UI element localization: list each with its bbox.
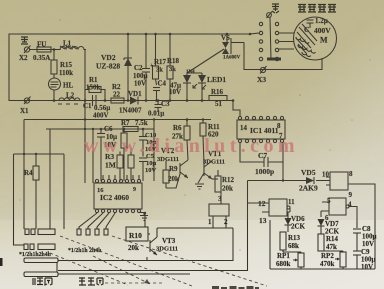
timer block box: [208, 204, 229, 228]
fuse FU: [30, 41, 58, 53]
gate IC1d (8,9,10): [326, 170, 353, 199]
diode VD3: [183, 70, 195, 101]
resistor R9: [163, 161, 180, 188]
wire: L1 to C1 node: [84, 50, 85, 101]
wire: C5 column down to R10: [143, 183, 145, 227]
resistor R17: [153, 34, 167, 85]
ground (VT1): [195, 173, 204, 189]
capacitor C5: [139, 153, 157, 181]
terminal X2: [19, 46, 50, 63]
motor M: [294, 17, 337, 60]
switch bank2 row: [77, 229, 108, 235]
IC IC1 4011: [237, 116, 285, 142]
switch contacts left column: [259, 22, 262, 60]
diode VD6 2CK: [285, 215, 306, 232]
wire: gate A out down: [288, 208, 290, 216]
capacitor C3: [148, 100, 170, 118]
resistor R4: [24, 166, 39, 180]
wire: rail y=129: [46, 128, 154, 130]
wire: to VD5 line: [248, 162, 331, 181]
wire: bottom bus: [270, 220, 375, 269]
label 阵风: [33, 278, 52, 285]
wire: left vertical x=13.5: [14, 154, 25, 245]
wire: horizontal y=154: [14, 153, 65, 155]
ground (IC2): [139, 213, 148, 221]
switch contacts right column: [275, 22, 278, 60]
wire: bar2 line right: [58, 273, 190, 275]
capacitor C6: [97, 125, 117, 181]
wire: top rail: [9, 34, 250, 101]
wire: gate output to right rail: [348, 184, 375, 269]
zener VD2 UZ-828: [96, 34, 132, 101]
resistor R6: [172, 120, 190, 161]
capacitor C2: [133, 34, 154, 101]
capacitor C7: [240, 143, 283, 177]
transistor VT1: [203, 150, 225, 179]
resistor R18: [167, 34, 180, 101]
wire: y=228 bus: [157, 227, 233, 229]
caption tops (cropped): [212, 286, 259, 289]
push bar 2: [24, 272, 58, 277]
wire: vertical x=154: [153, 120, 155, 182]
wire: box frame lines: [58, 181, 248, 271]
wire: rail y=119.5: [24, 119, 211, 121]
capacitor C10: [139, 129, 157, 157]
capacitor C4: [153, 80, 181, 101]
pot RP2 470k: [320, 251, 346, 269]
resistor R15: [51, 50, 73, 78]
inductor L1: [58, 40, 86, 50]
IC IC2 4060: [94, 179, 142, 212]
resistor R2: [111, 83, 124, 103]
triac VS: [221, 34, 244, 61]
terminal top of switch: [267, 12, 273, 19]
resistor R12: [212, 170, 235, 193]
diode VD5 2AK9: [299, 168, 330, 193]
inductor L2: [58, 92, 80, 105]
wires: IC2 to switch bank2: [79, 213, 115, 229]
LED LED1: [193, 75, 226, 101]
diode VD7 2CK: [318, 219, 340, 236]
transistor VT2: [157, 147, 188, 178]
timer block pins: [218, 192, 222, 204]
wires to motor: [279, 33, 294, 49]
terminal X3 bottom: [257, 66, 267, 84]
resistor R11: [200, 120, 220, 165]
switch X3 common line: [270, 18, 271, 61]
terminal X1: [20, 97, 31, 116]
resistor R10: [126, 227, 148, 252]
capacitor C9: [353, 248, 376, 271]
push bar 1: [24, 258, 58, 272]
pot RP1 680k: [276, 252, 304, 269]
resistor R13: [280, 232, 301, 252]
resistor R1 (parallel with C1): [85, 76, 105, 101]
wire: VT3 collector up: [156, 228, 158, 237]
capacitor C8: [353, 225, 377, 251]
transistor VT3: [148, 234, 178, 255]
wire: gate B out to C8 col: [349, 207, 357, 229]
resistor R16: [209, 88, 227, 108]
wire: vertical x=50: [49, 129, 51, 229]
switch bank1 row A: [25, 229, 55, 235]
wire: left vertical x=24: [23, 120, 25, 230]
resistor R7: [121, 119, 148, 132]
wire: vertical x=85: [84, 101, 86, 184]
label 连续风: [79, 278, 103, 285]
wire: bar1 line right: [58, 260, 233, 262]
resistor R3 1M: [105, 152, 123, 182]
resistor R14: [318, 234, 339, 251]
wire: rail to left contact: [250, 33, 259, 34]
wire: IC2 pin stubs: [103, 175, 139, 179]
scan speckles: [19, 18, 370, 251]
resistor R8: [128, 148, 134, 181]
wire: vertical x=93: [92, 129, 94, 183]
gate IC1a (12,13,11): [248, 198, 295, 225]
wire: R16 line into IC1: [233, 101, 240, 117]
node 棕 (brown) label: [272, 4, 279, 13]
wire: VS to X3 bottom and motor return: [244, 43, 322, 70]
node 蓝 (blue) label: [21, 37, 28, 44]
switch bottom bar: [267, 58, 281, 61]
wire: vertical x=64: [63, 154, 65, 229]
wire: gate B input chain: [320, 211, 322, 217]
wire: mains line y=101: [9, 100, 233, 102]
lamp HL: [49, 74, 74, 102]
gate IC1c (5,6,4): [321, 197, 352, 222]
dashed linkage lines: [50, 236, 267, 286]
wire: vertical x=36 with resistor R4: [35, 154, 37, 229]
diode VD1 1N4007: [119, 90, 142, 115]
wire: diagonal to VS gate: [187, 49, 224, 75]
switch bank1 row B: [24, 244, 55, 250]
capacitor C1: [83, 95, 110, 120]
resistor R5: [121, 129, 127, 181]
fan motor 风扇电机 label: [298, 5, 336, 13]
scan blob left edge: [0, 258, 3, 266]
